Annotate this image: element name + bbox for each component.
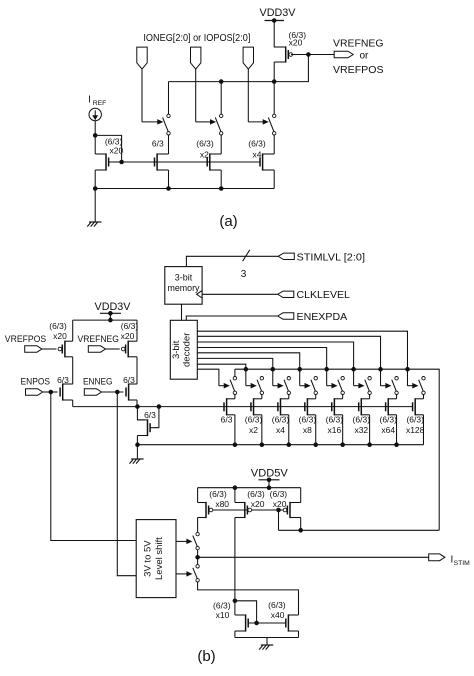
nmos M4 (6/3) x4	[262, 153, 264, 170]
switch SA1	[230, 377, 236, 395]
svg-text:x32: x32	[354, 425, 368, 435]
wire output node to VREFNEG/VREFPOS pad	[308, 54, 334, 56]
wire decoder output 1 to switch SA8 control	[197, 331, 407, 386]
wire mid gate rail (b)	[73, 406, 413, 408]
wire M1 source down to ground rail	[94, 170, 96, 189]
switch SA8	[419, 377, 426, 395]
clock input triangle on U1	[197, 291, 203, 298]
nmos M3 (6/3) x2	[209, 153, 211, 170]
switch SA6	[365, 377, 372, 395]
wire MN1 source to mid rail	[72, 400, 74, 407]
nmos M1 (6/3) x20 diode reference	[105, 153, 107, 170]
wire MP1 drain down to node row	[273, 62, 275, 82]
wire M1 drain lead up	[94, 135, 96, 154]
node MA4 source on ground rail	[314, 443, 318, 447]
nmos MN4 (6/3) x10 diode	[235, 614, 248, 631]
node MA5 source on ground rail	[341, 443, 345, 447]
svg-text:VREFPOS: VREFPOS	[5, 334, 46, 344]
wire memory to decoder	[181, 304, 183, 320]
wire MP4 drain down to switch SB1	[197, 518, 199, 533]
wire IREF to M1 drain node	[94, 121, 96, 136]
wire MP3 drain down to MN2 drain	[136, 357, 138, 384]
wire M4 source to ground rail	[273, 170, 275, 189]
wire 5V pmos gate rail	[213, 509, 283, 511]
svg-text:x40: x40	[271, 610, 285, 620]
wire output stage ground rail	[235, 637, 299, 639]
nmos MN2 6/3 enable negative	[126, 383, 137, 400]
wire MN3 drain from rail	[137, 407, 145, 420]
switch SA5	[338, 377, 345, 395]
wire CLKLEVEL to memory clock input	[202, 293, 278, 295]
wire decoder output 2 to switch SA7 control	[197, 336, 380, 385]
node MN3 drain tap	[136, 405, 140, 409]
svg-text:STIM: STIM	[454, 560, 471, 567]
node control crossing on output rail (SA2)	[244, 367, 248, 371]
node control crossing on output rail (SA6)	[352, 367, 356, 371]
wire MP6 source up to 5V rail	[300, 488, 302, 503]
wire MA4 source to ground rail	[315, 415, 317, 445]
node M2 source	[167, 187, 171, 191]
svg-text:VDD3V: VDD3V	[260, 7, 297, 19]
wire ENPOS pad to MN1 gate	[43, 391, 58, 393]
node ENPOS branch	[49, 390, 53, 394]
node MA6 source on ground rail	[368, 443, 372, 447]
svg-text:(6/3): (6/3)	[209, 489, 227, 499]
wire MA8 source to ground rail	[422, 415, 424, 445]
pad VREFNEG	[88, 346, 105, 352]
wire MN4 diode connection to gate rail	[235, 601, 257, 623]
node VDD drop on rail	[109, 318, 113, 322]
node VDD5V drop	[267, 486, 271, 490]
node MN3 gate tap (diode)	[157, 405, 161, 409]
wire MN4-MN5 gate rail	[248, 622, 286, 624]
wire VDD5V to 5V rail	[268, 480, 270, 488]
block U2 3-bit decoder	[170, 320, 197, 379]
wire pad bit2 to switch S3 control	[247, 69, 249, 122]
wire decoder output 4 to switch SA5 control	[197, 348, 326, 386]
node control crossing on output rail (SA3)	[271, 367, 275, 371]
node MA2 source on ground rail	[260, 443, 264, 447]
wire decoder output 8 to switch SA1 control	[197, 369, 219, 386]
switch SB2 sink enable	[193, 565, 200, 582]
svg-text:(6/3): (6/3)	[247, 489, 265, 499]
switch S2	[220, 114, 223, 117]
svg-text:(6/3): (6/3)	[121, 321, 139, 331]
svg-text:x20: x20	[110, 145, 124, 155]
wire switch SA4 to MA4 drain	[315, 395, 317, 399]
svg-text:memory: memory	[168, 283, 200, 293]
wire switch S2 to M3 drain	[220, 135, 222, 154]
node ENNEG branch	[116, 390, 120, 394]
wire diode connection M1 drain to gate rail	[95, 135, 121, 162]
wire rail down to switch S1	[168, 82, 170, 115]
svg-text:(6/3): (6/3)	[196, 139, 214, 149]
svg-text:IONEG[2:0] or IOPOS[2:0]: IONEG[2:0] or IOPOS[2:0]	[143, 32, 250, 44]
pad ISTIM	[429, 554, 445, 561]
arrow level shifter output to switch SB2	[176, 573, 188, 575]
node control crossing on output rail (SA7)	[379, 367, 383, 371]
svg-text:(6/3): (6/3)	[272, 415, 290, 425]
block U3 3V to 5V level shift	[136, 520, 176, 598]
svg-text:x20: x20	[53, 331, 67, 341]
svg-text:3-bit: 3-bit	[171, 340, 182, 359]
wire decoder output 3 to switch SA6 control	[197, 342, 353, 386]
node MA3 source on ground rail	[287, 443, 291, 447]
svg-text:Level shift: Level shift	[154, 537, 165, 580]
nmos MN1 6/3 enable positive	[60, 383, 73, 400]
wire switch SA3 to MA3 drain	[288, 395, 290, 399]
wire switch SA5 to MA5 drain	[342, 395, 344, 399]
wire decoder output 5 to switch SA4 control	[197, 353, 299, 386]
node control crossing on output rail (SA8)	[406, 367, 410, 371]
svg-text:3: 3	[241, 269, 247, 280]
arrow control into switch SA2	[246, 385, 252, 387]
node MP1 drain / switch rail	[272, 80, 276, 84]
wire MN3 gate diode connection	[150, 407, 159, 428]
pad IONEG/IOPOS bit2	[243, 47, 253, 69]
wire ground rail (a)	[95, 188, 274, 190]
wire MP3 source up to rail	[136, 320, 138, 341]
pmos MP2 (6/3) x20 source branch	[58, 341, 73, 358]
wire M2 source to ground rail	[168, 170, 170, 189]
svg-text:VDD3V: VDD3V	[95, 301, 132, 313]
ground symbol (b mid)	[131, 458, 143, 460]
arrow control into switch SA5	[327, 385, 333, 387]
block U1 3-bit memory	[165, 267, 202, 305]
wire switch SB2 to MN5 drain	[198, 582, 299, 615]
arrow control into switch SA8	[407, 385, 413, 387]
svg-text:x64: x64	[381, 425, 395, 435]
wire MA7 source to ground rail	[396, 415, 398, 445]
wire ENPOS to level shifter input	[51, 392, 136, 541]
svg-text:(6/3): (6/3)	[213, 600, 231, 610]
svg-text:ENEXPDA: ENEXPDA	[297, 312, 348, 323]
node M3 source	[219, 187, 223, 191]
wire switch SA1 to MA1 drain	[234, 395, 236, 399]
wire MP2 drain down to MN1 drain	[72, 357, 74, 384]
switch S1	[167, 114, 170, 117]
svg-text:x16: x16	[328, 425, 342, 435]
wire ground stem (b mid)	[136, 445, 138, 459]
wire ground stem (a)	[94, 189, 96, 222]
svg-text:decoder: decoder	[182, 333, 193, 367]
wire switch SA2 to MA2 drain	[261, 395, 263, 399]
pmos MP6 (6/3) x20 diode input	[283, 502, 301, 518]
svg-text:x4: x4	[253, 149, 262, 159]
wire gate rail (a) mirror	[122, 161, 260, 163]
wire switch SB1 to ISTIM node	[197, 550, 199, 565]
nmos MA4 (6/3) x8	[305, 398, 316, 415]
node ISTIM branch	[196, 556, 200, 560]
nmos M2 6/3	[156, 153, 158, 170]
svg-text:I: I	[88, 95, 91, 106]
arrow control into switch SA1	[219, 385, 225, 387]
svg-text:6/3: 6/3	[152, 139, 164, 149]
wire MP6 drain down to input node	[300, 518, 302, 531]
wire output node down to MP1 drain (diode connection)	[274, 55, 308, 82]
wire M3 source to ground rail	[220, 170, 222, 189]
svg-text:STIMLVL [2:0]: STIMLVL [2:0]	[297, 252, 366, 263]
ground symbol (output stage)	[261, 644, 273, 646]
wire MA2 source to ground rail	[261, 415, 263, 445]
svg-text:x20: x20	[289, 38, 303, 48]
wire MN4 source down to ground rail	[234, 631, 236, 638]
svg-text:(6/3): (6/3)	[270, 489, 288, 499]
wire MN5 source down to ground rail	[298, 631, 300, 638]
wire switch SA7 to MA7 drain	[396, 395, 398, 399]
node MP6 diode tap on gate rail	[277, 508, 281, 512]
svg-text:3-bit: 3-bit	[175, 272, 193, 282]
svg-text:x2: x2	[249, 425, 258, 435]
wire STIMLVL bus to 3-bit memory	[186, 256, 278, 266]
node control crossing on output rail (SA4)	[298, 367, 302, 371]
wire MA3 source to ground rail	[288, 415, 290, 445]
wire decoder output 6 to switch SA3 control	[197, 358, 272, 385]
svg-text:(6/3): (6/3)	[326, 415, 344, 425]
wire switch SA8 to MA8 drain	[422, 395, 424, 399]
switch S3	[273, 114, 276, 117]
wire MA1 source to ground rail	[234, 415, 236, 445]
arrow control into switch SA7	[381, 385, 387, 387]
node MN4 mirror (MP5 drain / x10 diode)	[233, 599, 237, 603]
nmos MA7 (6/3) x64	[386, 398, 397, 415]
pad IONEG/IOPOS bit0	[137, 47, 147, 69]
node VREF output junction	[307, 53, 311, 57]
svg-text:x8: x8	[303, 425, 312, 435]
switch SB1 source enable	[193, 532, 200, 549]
wire MA5 source to ground rail	[342, 415, 344, 445]
node M1 drain/gate	[93, 134, 97, 138]
wire ENNEG to level shifter input	[117, 392, 136, 576]
svg-text:x128: x128	[406, 425, 425, 435]
wire 3V supply rail (b)	[73, 319, 137, 321]
svg-text:ENPOS: ENPOS	[21, 377, 51, 387]
wire switch S1 to M2 drain	[168, 135, 170, 154]
pad VREFNEG or VREFPOS output	[334, 51, 353, 58]
svg-text:6/3: 6/3	[123, 375, 135, 385]
svg-text:x4: x4	[276, 425, 285, 435]
wire MP5 source up to 5V rail	[234, 488, 236, 503]
svg-text:(6/3): (6/3)	[245, 415, 263, 425]
svg-text:(6/3): (6/3)	[268, 600, 286, 610]
svg-text:6/3: 6/3	[57, 375, 69, 385]
ground symbol (a)	[89, 221, 101, 223]
wire ground stem (output stage)	[266, 638, 268, 645]
wire switch SA6 to MA6 drain	[369, 395, 371, 399]
pad VREFPOS	[25, 346, 42, 352]
wire rail down to switch S3	[273, 83, 275, 114]
nmos MA1 6/3	[224, 398, 235, 415]
svg-text:VDD5V: VDD5V	[251, 467, 289, 479]
pad STIMLVL	[278, 253, 294, 259]
svg-text:(6/3): (6/3)	[49, 321, 67, 331]
switch SA4	[311, 377, 317, 395]
svg-text:or: or	[360, 51, 370, 62]
svg-text:6/3: 6/3	[221, 415, 233, 425]
svg-text:(6/3): (6/3)	[379, 415, 397, 425]
svg-text:3V to 5V: 3V to 5V	[143, 540, 154, 577]
pad CLKLEVEL	[278, 291, 294, 297]
wires decoder outputs to switch controls	[197, 331, 417, 388]
svg-text:VREFPOS: VREFPOS	[333, 64, 384, 76]
wire decoder output 7 to switch SA2 control	[197, 364, 246, 386]
node switch S2 tap	[219, 80, 223, 84]
svg-text:x80: x80	[215, 499, 229, 509]
nmos MN5 (6/3) x40 sink output	[286, 614, 299, 631]
svg-text:REF: REF	[93, 100, 107, 107]
nmos MA6 (6/3) x32	[359, 398, 370, 415]
arrow control into switch SA4	[300, 385, 306, 387]
pad ENNEG	[84, 389, 101, 395]
svg-text:x20: x20	[251, 499, 265, 509]
svg-text:x2: x2	[200, 149, 209, 159]
node MA1 source on ground rail	[233, 443, 237, 447]
wire 5V supply rail	[198, 487, 301, 489]
pad IONEG/IOPOS bit1	[191, 47, 201, 69]
svg-text:x20: x20	[121, 331, 135, 341]
bus slash 3-bit width marker	[243, 250, 250, 261]
wire ISTIM output line	[198, 556, 429, 558]
switch SA3	[284, 377, 290, 395]
wire MP4 source up to 5V rail	[197, 488, 199, 503]
switch SA2	[257, 377, 263, 395]
pad ENPOS	[26, 389, 43, 395]
svg-text:(b): (b)	[197, 648, 215, 665]
svg-text:(6/3): (6/3)	[248, 139, 266, 149]
power symbol VDD5V	[251, 467, 289, 481]
wire MP6 gate to drain diode connection	[278, 510, 280, 530]
svg-text:ENNEG: ENNEG	[83, 377, 113, 387]
wire MA6 source to ground rail	[369, 415, 371, 445]
nmos MA2 (6/3) x2	[251, 398, 262, 415]
switch SA7	[392, 377, 399, 395]
arrow control into switch SA6	[354, 385, 360, 387]
wire ENNEG pad to MN2 gate	[102, 391, 124, 393]
arrow control into switch SA3	[273, 385, 279, 387]
node gate rail junction	[120, 160, 124, 164]
svg-text:x20: x20	[273, 499, 287, 509]
pad ENEXPDA	[278, 313, 294, 319]
node MN4 gate junction	[255, 621, 259, 625]
pmos MP5 (6/3) x20 mirror to sink stage	[235, 502, 252, 518]
node MA7 source on ground rail	[395, 443, 399, 447]
arrow level shifter output to switch SB1	[176, 540, 188, 542]
nmos MN3 6/3 array diode reference	[137, 419, 150, 436]
svg-text:CLKLEVEL: CLKLEVEL	[297, 290, 351, 301]
wire MP2 source up to rail	[72, 320, 74, 341]
wire array current to MP6 drain node	[279, 529, 440, 531]
wire MP5 drain down to MN4 mirror node	[234, 518, 236, 601]
svg-text:6/3: 6/3	[144, 410, 156, 420]
wire switch top rail (a)	[169, 81, 275, 83]
wire VREFPOS pad to MP2 gate	[42, 348, 57, 350]
power symbol VDD3V (b)	[95, 301, 132, 315]
wire VDD3V (b) to supply rail	[109, 313, 111, 320]
wire ENEXPDA to decoder	[186, 316, 277, 320]
svg-text:(6/3): (6/3)	[406, 415, 424, 425]
wire array ground rail (b)	[138, 444, 424, 446]
pmos MP3 (6/3) x20 sink branch	[121, 341, 137, 358]
svg-text:VREFNEG: VREFNEG	[78, 334, 119, 344]
wire VREFNEG pad to MP3 gate	[106, 348, 120, 350]
wire VDD3V to PMOS MP1 source	[274, 21, 286, 48]
node control crossing on output rail (SA5)	[325, 367, 329, 371]
node M1 source/ground stem	[93, 187, 97, 191]
nmos MA5 (6/3) x16	[332, 398, 343, 415]
svg-text:(6/3): (6/3)	[353, 415, 371, 425]
wire MN4 drain lead up to mirror node	[234, 601, 236, 615]
node diode NMOS on ground rail	[136, 443, 140, 447]
node MP6 drain	[299, 529, 303, 533]
wire pad bit0 to switch S1 control	[141, 69, 143, 122]
pmos MP1 (6/3) x20 diode-connected	[285, 46, 287, 62]
svg-text:(a): (a)	[219, 213, 237, 230]
wire rail down to switch S2	[220, 82, 222, 115]
svg-text:(6/3): (6/3)	[299, 415, 317, 425]
wire MN2 source to mid rail	[136, 400, 138, 407]
wire MN3 source to ground rail	[136, 436, 138, 445]
wire common summing rail (b)	[235, 369, 439, 530]
nmos MA3 (6/3) x4	[278, 398, 289, 415]
wire pad bit1 to switch S2 control	[195, 69, 197, 122]
pmos MP4 (6/3) x80 output source mirror	[198, 502, 213, 518]
nmos MA8 (6/3) x128	[413, 398, 424, 415]
svg-text:x10: x10	[216, 610, 230, 620]
wire switch S3 to M4 drain	[273, 135, 275, 154]
svg-text:VREFNEG: VREFNEG	[333, 38, 384, 50]
node MP5 source tap	[233, 486, 237, 490]
wire rail to switch SA1 top	[234, 369, 236, 376]
wire MP1 gate to output node	[291, 54, 308, 56]
